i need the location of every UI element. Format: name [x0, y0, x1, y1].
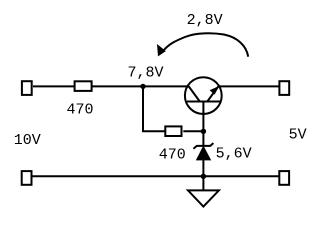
wire: transistor base down to node: [202, 112, 204, 131]
wire: bottom rail: [32, 175, 279, 177]
wire: vertical from 7,8V node down: [142, 86, 144, 131]
wire: top rail, terminal to R1: [33, 85, 74, 87]
svg-text:10V: 10V: [14, 132, 41, 149]
svg-text:5V: 5V: [289, 127, 307, 144]
wire: top rail, R1 to transistor: [93, 85, 190, 87]
resistor R1: [75, 81, 92, 91]
svg-text:470: 470: [67, 101, 94, 118]
wire: top rail, transistor to right terminal: [219, 85, 280, 87]
zener diode D1: [193, 131, 213, 176]
node base junction dot: [201, 129, 206, 134]
node bottom rail junction dot: [201, 174, 206, 179]
svg-text:7,8V: 7,8V: [128, 65, 164, 82]
ground: [188, 176, 219, 206]
svg-text:2,8V: 2,8V: [187, 12, 223, 29]
transistor Q1: [185, 77, 222, 114]
wire: R2 to base node: [183, 130, 203, 132]
annotation curved arrow: [164, 33, 249, 56]
terminal pad bottom-right: [279, 171, 289, 185]
terminal pad top-right: [279, 81, 289, 95]
terminal pad bottom-left: [22, 171, 32, 185]
resistor R2: [165, 126, 181, 136]
wire: horizontal to R2: [142, 130, 166, 132]
svg-text:470: 470: [159, 147, 186, 164]
node 7,8V junction dot: [140, 84, 145, 89]
terminal pad top-left: [22, 81, 32, 95]
annotation arrowhead: [157, 44, 166, 56]
svg-text:5,6V: 5,6V: [216, 145, 252, 162]
